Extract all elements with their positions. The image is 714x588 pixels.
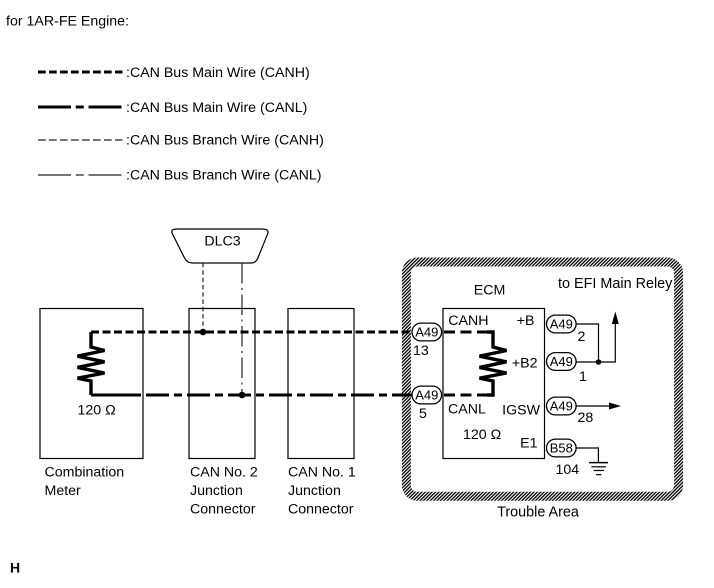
svg-text:CAN No. 1: CAN No. 1 — [288, 465, 356, 481]
svg-text:for 1AR-FE Engine:: for 1AR-FE Engine: — [6, 14, 129, 30]
svg-text:13: 13 — [413, 343, 429, 359]
svg-text::CAN Bus Branch Wire (CANH): :CAN Bus Branch Wire (CANH) — [126, 133, 324, 149]
svg-text:Junction: Junction — [288, 483, 341, 499]
svg-text:Connector: Connector — [288, 502, 354, 518]
svg-text:H: H — [10, 560, 20, 576]
svg-text:DLC3: DLC3 — [204, 234, 240, 250]
svg-text:Combination: Combination — [45, 465, 125, 481]
svg-text:Connector: Connector — [190, 502, 256, 518]
svg-text:120 Ω: 120 Ω — [463, 427, 501, 443]
svg-text:CAN No. 2: CAN No. 2 — [190, 465, 258, 481]
svg-text:Trouble Area: Trouble Area — [497, 505, 579, 521]
svg-text:1: 1 — [579, 369, 587, 385]
svg-text:120 Ω: 120 Ω — [78, 403, 116, 419]
svg-text:104: 104 — [556, 462, 580, 478]
svg-text:+B: +B — [517, 313, 535, 329]
svg-text:28: 28 — [578, 410, 594, 426]
svg-text::CAN Bus Main Wire (CANL): :CAN Bus Main Wire (CANL) — [126, 100, 307, 116]
svg-text:A49: A49 — [415, 388, 438, 403]
svg-text::CAN Bus Main Wire (CANH): :CAN Bus Main Wire (CANH) — [126, 65, 310, 81]
svg-text:IGSW: IGSW — [502, 403, 540, 419]
svg-text:E1: E1 — [520, 436, 537, 452]
svg-text:B58: B58 — [550, 441, 573, 456]
svg-text:CANH: CANH — [448, 313, 488, 329]
svg-text:A49: A49 — [550, 399, 573, 414]
svg-text:Meter: Meter — [45, 483, 82, 499]
svg-text:5: 5 — [419, 406, 427, 422]
svg-text:CANL: CANL — [448, 402, 486, 418]
svg-text:ECM: ECM — [474, 282, 506, 298]
svg-text:to EFI Main Reley: to EFI Main Reley — [558, 276, 673, 292]
svg-text:A49: A49 — [415, 325, 438, 340]
svg-text:+B2: +B2 — [512, 355, 538, 371]
svg-text:Junction: Junction — [190, 483, 243, 499]
svg-text::CAN Bus Branch Wire (CANL): :CAN Bus Branch Wire (CANL) — [126, 168, 322, 184]
svg-text:A49: A49 — [550, 354, 573, 369]
svg-text:2: 2 — [578, 329, 586, 345]
svg-text:A49: A49 — [550, 317, 573, 332]
